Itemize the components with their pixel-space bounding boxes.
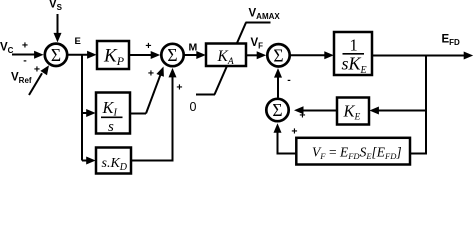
svg-text:VAMAX: VAMAX xyxy=(249,7,281,21)
wire KE to S4 xyxy=(294,106,337,114)
summing junction S2 xyxy=(161,44,183,66)
svg-text:+: + xyxy=(291,125,297,137)
block KI over s xyxy=(96,93,130,136)
node EFD label xyxy=(442,33,461,47)
wire KA to S3, node VF xyxy=(246,51,266,59)
block KE xyxy=(337,98,369,125)
block 1 over sKE integrator xyxy=(334,32,372,76)
node VRef label xyxy=(11,72,32,86)
svg-text:Σ: Σ xyxy=(51,45,61,65)
limiter upper limit line xyxy=(246,22,271,24)
block KD xyxy=(96,148,131,174)
node VC label xyxy=(0,42,14,56)
svg-text:1: 1 xyxy=(350,35,358,54)
summing junction S4 xyxy=(266,99,288,121)
block KA amplifier xyxy=(206,44,246,68)
block KP xyxy=(97,41,129,69)
node E label xyxy=(75,36,81,47)
sign plus VC xyxy=(22,40,28,52)
limiter diagonal through KA xyxy=(215,23,247,95)
svg-text:+: + xyxy=(148,68,154,80)
svg-text:VC: VC xyxy=(0,42,14,56)
svg-text:+: + xyxy=(176,82,182,94)
wire S4 to S3 xyxy=(274,68,282,98)
svg-text:+: + xyxy=(299,109,305,121)
svg-text:VS: VS xyxy=(49,0,63,12)
sign plus KI xyxy=(148,68,154,80)
node VF label xyxy=(251,37,264,51)
svg-text:0: 0 xyxy=(190,100,197,114)
wire VC input xyxy=(12,51,44,59)
svg-text:Σ: Σ xyxy=(167,45,177,65)
sign minus VC xyxy=(23,54,27,66)
svg-text:EFD: EFD xyxy=(442,33,461,47)
svg-text:VRef: VRef xyxy=(11,72,32,86)
sign minus S3 xyxy=(287,74,291,86)
svg-text:+: + xyxy=(34,64,40,76)
limiter lower limit 0 label xyxy=(190,100,197,114)
summing junction S1 xyxy=(45,44,67,66)
wire VS input xyxy=(54,14,62,42)
wire SE to S4 xyxy=(274,123,296,153)
svg-text:M: M xyxy=(189,42,198,54)
node VS label xyxy=(49,0,63,12)
svg-text:s: s xyxy=(108,119,114,135)
sign plus KP xyxy=(145,40,151,52)
wire S3 to integrator block xyxy=(290,51,333,59)
svg-text:-: - xyxy=(287,74,291,86)
wire EFD output with feedback branch xyxy=(372,52,473,60)
block SE saturation function xyxy=(296,138,410,165)
wire feedback to KE xyxy=(369,107,426,115)
sign plus KD xyxy=(176,82,182,94)
svg-text:Σ: Σ xyxy=(273,45,283,65)
wire KP to S2 xyxy=(129,51,160,59)
svg-text:-: - xyxy=(23,54,27,66)
wire KD to S2 xyxy=(131,68,177,161)
node M label xyxy=(189,42,198,54)
wire S1 to KP with branch node E xyxy=(68,51,97,59)
node VAMAX label xyxy=(249,7,281,21)
svg-text:+: + xyxy=(145,40,151,52)
summing junction S3 xyxy=(267,44,289,66)
sign plus SE xyxy=(291,125,297,137)
svg-text:+: + xyxy=(22,40,28,52)
wire E branch vertical xyxy=(81,55,83,161)
wire S2 to KA, node M xyxy=(184,51,205,59)
svg-text:Σ: Σ xyxy=(272,100,282,120)
wire branch to KD xyxy=(82,157,96,165)
wire KI to S2 xyxy=(130,67,164,114)
wire VRef input xyxy=(29,65,49,95)
wire branch to KI xyxy=(82,109,96,117)
limiter lower limit 0 line xyxy=(196,94,215,96)
sign plus VRef xyxy=(34,64,40,76)
wire feedback vertical from EFD branch xyxy=(410,56,426,154)
svg-text:E: E xyxy=(75,36,81,47)
sign plus KE xyxy=(299,109,305,121)
svg-text:VF: VF xyxy=(251,37,264,51)
